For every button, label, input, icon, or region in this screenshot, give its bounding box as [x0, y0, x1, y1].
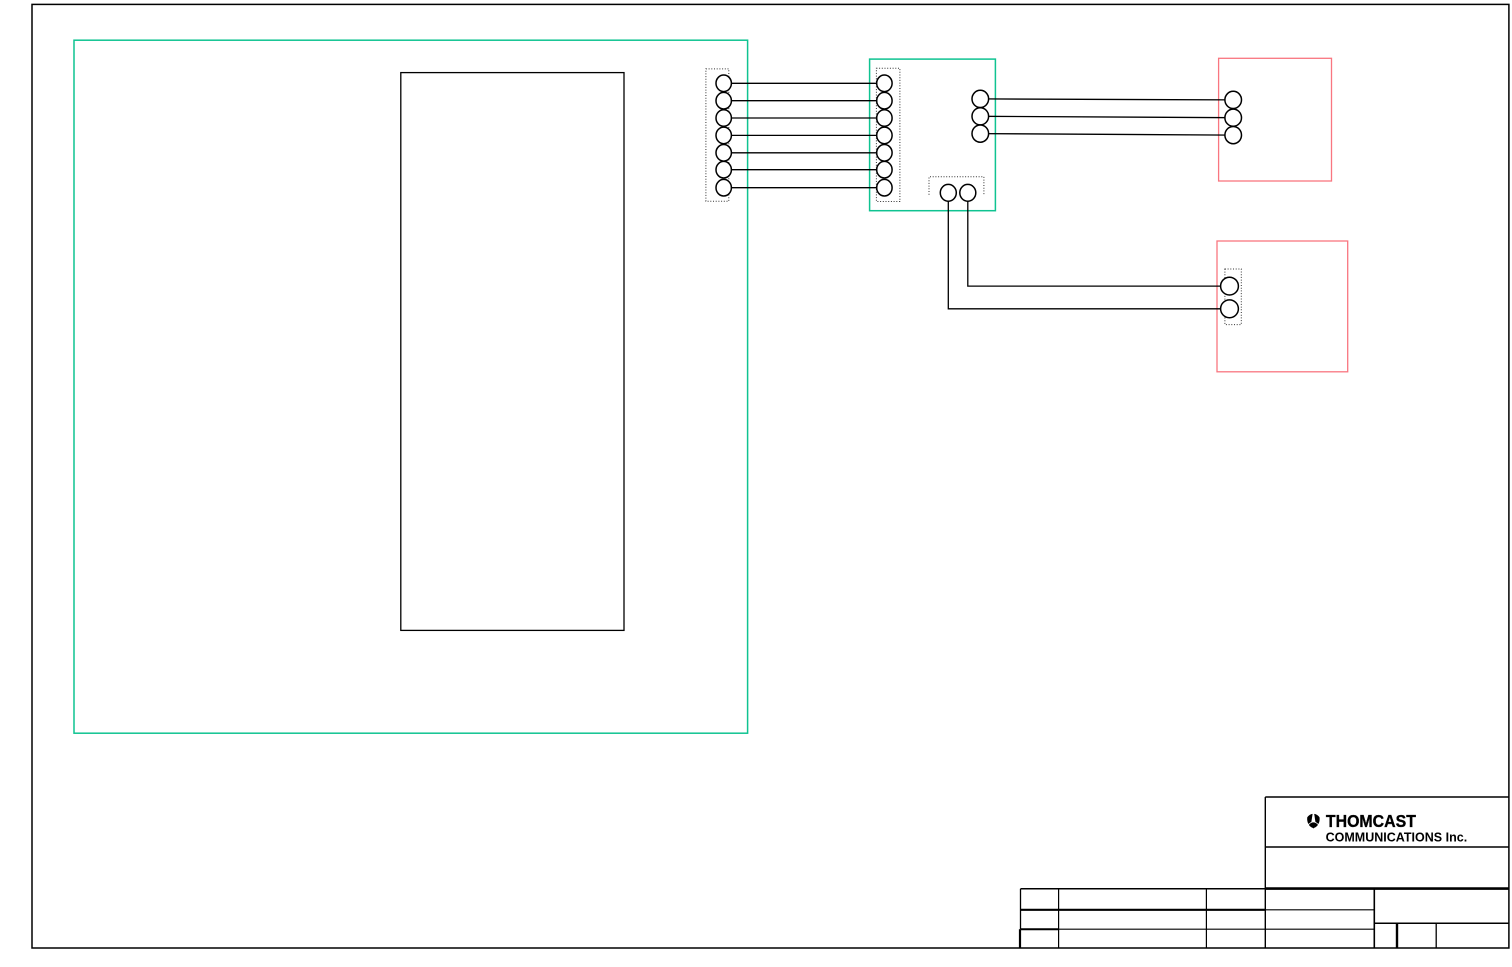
svg-text:COMMUNICATIONS Inc.: COMMUNICATIONS Inc. [1326, 831, 1468, 845]
svg-text:THOMCAST: THOMCAST [1326, 811, 1416, 831]
